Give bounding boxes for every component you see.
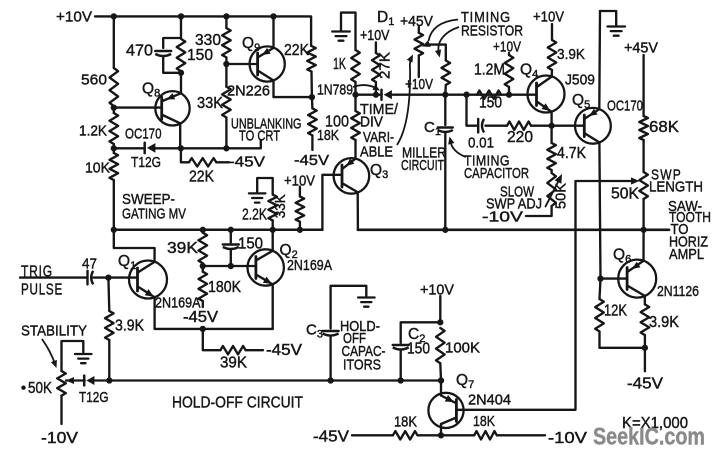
transistor Q2 2N169A: [248, 242, 333, 286]
node -45V (180K): [183, 309, 219, 326]
wire top +10V rail: [95, 16, 311, 46]
node junction 22K/18K: [309, 94, 315, 100]
svg-text:150: 150: [479, 95, 502, 112]
svg-text:OC170: OC170: [125, 126, 162, 143]
resistor 39K (Q2 base): [167, 230, 207, 266]
wire 470||150 top bracket: [163, 16, 181, 48]
svg-text:+10V: +10V: [56, 9, 92, 26]
leader to 1N789: [353, 85, 380, 91]
junction 39K top: [200, 227, 206, 233]
junction on +10V rail at 330: [223, 13, 229, 19]
ground (2.2K top): [249, 178, 273, 203]
label UNBLANKING TO CRT: [231, 117, 302, 145]
resistor 18K (left): [393, 414, 418, 440]
svg-text:-45V: -45V: [313, 429, 350, 446]
junction 12K/3.9K join: [642, 345, 648, 351]
svg-text:CAPACITOR: CAPACITOR: [464, 165, 529, 182]
resistor 33K (Q9 base): [197, 64, 231, 148]
svg-text:33K: 33K: [197, 95, 224, 112]
svg-text:1N789: 1N789: [317, 83, 353, 99]
junction on +10V rail at 150: [178, 13, 184, 19]
node junction Q8 base: [111, 104, 117, 110]
resistor 100K: [436, 328, 480, 381]
resistor 12K: [595, 279, 627, 348]
label STABILITY: [21, 323, 87, 340]
capacitor C2: [393, 326, 431, 381]
junction Q6 base/12K: [597, 275, 603, 281]
node +45V (timing): [400, 13, 433, 30]
svg-text:+45V: +45V: [624, 40, 658, 57]
junction C1 bottom: [442, 227, 448, 233]
leader TIMING RESISTOR to pot: [429, 20, 459, 42]
svg-text:22K: 22K: [284, 42, 310, 59]
wire Q2 collector lead: [272, 230, 274, 251]
wire timing bus y=94.7: [356, 94, 537, 96]
wiper wire stability: [66, 377, 85, 384]
resistor 68K: [639, 55, 679, 140]
svg-text:560: 560: [81, 72, 107, 89]
wire Q6 collector lead: [642, 230, 644, 261]
junction 150cap bottom: [228, 263, 234, 269]
wire Q8 base: [114, 106, 162, 108]
resistor 560: [81, 68, 118, 106]
wire Q2 base bus: [203, 265, 256, 267]
node -10V (stability): [41, 430, 79, 447]
svg-text:100: 100: [325, 114, 349, 131]
svg-text:DIV: DIV: [360, 115, 383, 131]
junction C3/hold-off rail: [327, 377, 333, 383]
wire Q5 collector lead: [598, 11, 601, 109]
wire Q8 emitter lead: [180, 73, 182, 94]
svg-text:T12G: T12G: [131, 154, 161, 171]
junction 33K(+10V) bottom: [297, 227, 303, 233]
junction Q7 collector/rail: [438, 432, 444, 438]
wire 470 bottom stem: [163, 58, 181, 73]
svg-text:470: 470: [126, 43, 153, 60]
resistor 2.2K: [242, 195, 277, 230]
junction timing-res bottom / C1: [442, 92, 448, 98]
label TIME/DIV VARIABLE: [360, 102, 399, 161]
capacitor 47: [82, 256, 97, 285]
ground (stability): [62, 341, 92, 371]
capacitor C1 (timing): [424, 95, 453, 230]
svg-text:50K: 50K: [553, 183, 570, 209]
svg-text:2.2K: 2.2K: [242, 206, 268, 223]
junction Q8 collector/22K: [178, 145, 184, 151]
label SWEEP-GATING MV: [122, 191, 186, 223]
capacitor C3: [306, 322, 339, 381]
resistor 1K: [333, 50, 360, 95]
resistor 39K (emitter to -45V): [203, 329, 263, 371]
svg-text:27K: 27K: [377, 52, 394, 79]
node +10V (27K top): [360, 28, 390, 44]
transistor Q8 OC170: [125, 81, 190, 143]
svg-text:CIRCUIT: CIRCUIT: [401, 157, 444, 174]
resistor 18K (right): [473, 413, 497, 440]
transistor Q6 2N1126: [613, 247, 699, 300]
svg-text:47: 47: [82, 256, 97, 273]
wire Q7 base long wire: [456, 409, 575, 411]
resistor 22K (Q9 collector): [284, 42, 316, 97]
leader TIMING CAPACITOR to C1: [448, 137, 466, 158]
wire 0.01 branch: [467, 95, 552, 126]
node junction Q8 emitter net: [178, 70, 184, 76]
node +10V (1.2M): [493, 40, 521, 56]
svg-text:GATING MV: GATING MV: [122, 206, 186, 223]
wire +10V stem: [439, 296, 441, 322]
resistor 10K: [85, 144, 118, 230]
svg-text:68K: 68K: [649, 119, 680, 136]
wire Q6 base: [601, 277, 628, 279]
label SWP LENGTH: [649, 167, 703, 196]
wire Q5 emitter long lead: [599, 142, 600, 278]
wire Q6 emitter join: [600, 348, 645, 372]
transistor Q7 2N404: [428, 372, 511, 428]
node -10V (bottom): [548, 430, 588, 447]
wire Q4 emitter lead: [550, 112, 552, 126]
wire Q5 base: [552, 125, 585, 127]
wire Q3 base: [322, 175, 342, 230]
wire Q1/Q2 emitter rail: [155, 328, 273, 330]
svg-text:+10V: +10V: [405, 77, 433, 93]
resistor 220: [507, 122, 533, 147]
potentiometer 50K slow swp adj: [526, 173, 570, 216]
svg-text:-45V: -45V: [183, 309, 219, 326]
svg-text:330: 330: [195, 32, 221, 49]
svg-text:-10V: -10V: [548, 430, 588, 447]
resistor 150 (Q8 emitter): [177, 39, 214, 71]
wire left vertical (560/1.2K/10K chain): [113, 16, 115, 68]
svg-text:2N1126: 2N1126: [657, 283, 699, 300]
wire Q2 emitter lead: [272, 284, 274, 329]
svg-text:STABILITY: STABILITY: [21, 323, 87, 340]
svg-text:2N226: 2N226: [227, 83, 270, 100]
potentiometer 50K stability: [21, 371, 66, 424]
leader VARIABLE to timing pot: [397, 55, 413, 146]
wire Q9 collector lead: [274, 81, 312, 98]
svg-text:+10V: +10V: [533, 9, 564, 26]
wire sawtooth rail: [358, 228, 669, 231]
wire bottom rail mid: [418, 434, 475, 436]
junction C2/hold-off rail: [398, 377, 404, 383]
wire trig to Q1: [94, 276, 138, 278]
svg-text:18K: 18K: [394, 414, 417, 431]
transistor Q4 J509: [520, 62, 595, 113]
svg-text:RESISTOR: RESISTOR: [461, 23, 523, 40]
node -10V (slow swp): [482, 209, 523, 226]
svg-text:ABLE: ABLE: [360, 145, 393, 161]
node -45V (bottom): [313, 429, 350, 446]
node +10V (top left supply): [56, 9, 92, 26]
wire Q9 base: [226, 63, 257, 65]
svg-text:18K: 18K: [473, 413, 495, 430]
svg-text:+10V: +10V: [360, 28, 390, 44]
node +10V (Q4 collector): [533, 9, 564, 26]
wire trig input: [20, 276, 87, 278]
junction 100K/C2: [437, 319, 443, 325]
wire hold-off rail: [93, 379, 442, 381]
node junction T12G/10K: [111, 145, 117, 151]
resistor 150 (Q4 base): [477, 91, 502, 112]
svg-text:1.2M: 1.2M: [474, 62, 505, 79]
ground (1K top): [332, 13, 355, 50]
capacitor 470: [126, 43, 171, 60]
svg-text:50K: 50K: [28, 380, 53, 397]
svg-text:-45V: -45V: [294, 152, 329, 169]
svg-text:220: 220: [507, 129, 533, 146]
svg-text:ITORS: ITORS: [343, 357, 381, 373]
svg-text:3.9K: 3.9K: [557, 46, 585, 63]
resistor 330: [195, 16, 231, 64]
junction 1K/100: [352, 92, 358, 98]
resistor 3.9K (Q4): [548, 24, 585, 70]
svg-text:AMPL: AMPL: [669, 247, 704, 263]
svg-text:+10V: +10V: [493, 40, 521, 56]
svg-text:100K: 100K: [445, 339, 480, 356]
resistor 100: [325, 95, 360, 159]
watermark SeekIC.com: [593, 424, 705, 451]
junction 50K length bottom / Q6 collector: [640, 227, 646, 233]
svg-text:12K: 12K: [604, 303, 628, 320]
label TIMING CAPACITOR: [464, 152, 529, 182]
capacitor 150 (coupling): [223, 230, 264, 266]
svg-text:T12G: T12G: [79, 389, 109, 406]
junction 100K bottom / Q7: [438, 377, 444, 383]
svg-text:1.2K: 1.2K: [79, 123, 107, 140]
svg-text:-45V: -45V: [229, 154, 265, 171]
potentiometer 50K swp length: [611, 140, 648, 230]
node +45V (68K): [624, 40, 658, 57]
wire Q1 emitter lead: [153, 297, 155, 329]
transistor Q1 2N169A: [118, 253, 201, 311]
label HOLD-OFF CAPACITORS: [340, 319, 386, 373]
potentiometer timing resistor: [405, 27, 433, 93]
junction Q1 base/3.9K: [105, 274, 111, 280]
transistor Q5 OC170: [572, 92, 643, 144]
junction 33K bottom: [223, 145, 229, 151]
junction on +10V rail at 560: [111, 13, 117, 19]
node junction Q9 base: [223, 61, 229, 67]
resistor 180K: [199, 266, 242, 307]
node +10V (33K): [284, 174, 315, 190]
label K=X1,000: [622, 415, 688, 432]
node -45V (below 18K): [294, 152, 329, 169]
svg-text:33K: 33K: [272, 194, 289, 218]
svg-text:150: 150: [407, 341, 430, 358]
junction 3.9K bottom / hold-off: [106, 377, 112, 383]
svg-text:-45V: -45V: [627, 376, 664, 393]
svg-text:J509: J509: [565, 72, 595, 89]
wire bottom rail left: [352, 434, 393, 436]
junction 150cap top: [228, 227, 234, 233]
svg-text:0.01: 0.01: [468, 135, 494, 152]
junction 39K/180K: [200, 263, 206, 269]
node -45V (22K): [229, 154, 265, 171]
ground (top right): [600, 11, 625, 36]
label TIMING RESISTOR: [461, 9, 523, 40]
label SLOW SWP ADJ: [486, 184, 542, 213]
leader TIMING RESISTOR to fixed res: [435, 27, 459, 58]
diode T12G (sweep MV): [131, 143, 161, 171]
svg-text:-10V: -10V: [41, 430, 79, 447]
node +10V (100K): [420, 281, 454, 298]
svg-text:4.7K: 4.7K: [557, 145, 587, 162]
diode T12G (hold-off): [79, 376, 109, 406]
node -45V (emitter 39K): [266, 342, 303, 359]
junction MV rail left end: [111, 227, 117, 233]
svg-text:2N169A: 2N169A: [287, 258, 332, 274]
label TRIG PULSE: [21, 264, 63, 299]
svg-text:3.9K: 3.9K: [115, 318, 145, 335]
wire Q8 collector lead: [179, 123, 181, 148]
label MILLER CIRCUIT: [401, 145, 446, 174]
svg-text:HOLD-OFF CIRCUIT: HOLD-OFF CIRCUIT: [172, 395, 303, 412]
wire collector bus y=148: [114, 140, 261, 148]
resistor 4.7K: [547, 126, 586, 173]
resistor 3.9K (Q1 base): [105, 278, 145, 381]
wire Q7 collector lead: [440, 424, 442, 435]
diode 1N789: [317, 83, 392, 100]
wire Q7 emitter lead: [440, 381, 442, 396]
resistor 33K (+10V): [272, 187, 304, 230]
svg-text:39K: 39K: [167, 240, 199, 257]
svg-text:10K: 10K: [85, 160, 110, 177]
resistor 18K (unblanking): [308, 97, 339, 150]
junction 27K bottom: [373, 92, 379, 98]
capacitor 0.01: [468, 119, 494, 152]
resistor timing (fixed): [442, 61, 451, 95]
resistor 3.9K (Q6): [641, 296, 680, 348]
svg-text:PULSE: PULSE: [21, 282, 63, 299]
wire MV rail y=229.8: [114, 229, 323, 232]
label D1: [377, 9, 394, 28]
wiper wire swp length: [576, 177, 640, 409]
resistor 27K: [372, 42, 394, 94]
svg-text:150: 150: [187, 47, 213, 64]
junction Q2 collector/2.2K: [270, 227, 276, 233]
svg-text:-10V: -10V: [482, 209, 523, 226]
leader STABILITY to pot: [42, 339, 57, 368]
svg-text:SeekIC.com: SeekIC.com: [593, 424, 705, 451]
junction 0.01 branch: [463, 92, 469, 98]
svg-text:3.9K: 3.9K: [649, 314, 680, 331]
svg-text:22K: 22K: [189, 169, 215, 186]
wire Q9 emitter lead: [272, 16, 274, 48]
svg-text:+10V: +10V: [420, 281, 454, 298]
node -45V (Q6): [627, 376, 664, 393]
junction 1.2M bottom: [506, 92, 512, 98]
resistor 22K (to -45V): [181, 148, 229, 185]
resistor 1.2M: [474, 53, 513, 95]
svg-text:+45V: +45V: [400, 13, 433, 30]
svg-text:TO CRT: TO CRT: [239, 129, 280, 145]
pot wiper / tap wire: [422, 40, 446, 60]
svg-text:39K: 39K: [220, 354, 248, 371]
svg-text:LENGTH: LENGTH: [649, 178, 703, 195]
svg-text:50K: 50K: [611, 185, 640, 202]
ground (C3): [331, 286, 375, 329]
transistor Q9 2N226: [227, 35, 285, 100]
transistor Q3: [334, 158, 389, 194]
svg-text:-45V: -45V: [266, 342, 303, 359]
wire Q4 collector lead: [551, 70, 554, 77]
wire C2 arm: [401, 322, 441, 343]
svg-text:2N404: 2N404: [468, 392, 511, 409]
wire Q3 collector lead: [357, 192, 360, 230]
label HOLD-OFF CIRCUIT: [172, 395, 303, 412]
svg-text:180K: 180K: [208, 279, 242, 296]
svg-text:VARI-: VARI-: [363, 130, 394, 146]
svg-text:1K: 1K: [333, 56, 346, 73]
resistor 1.2K: [79, 106, 118, 144]
svg-text:OC170: OC170: [607, 98, 643, 115]
junction Q4 emitter: [548, 123, 554, 129]
junction emitter rail/39K: [200, 326, 206, 332]
wire bottom rail right: [497, 434, 545, 436]
junction on +10V rail at Q9 emitter: [270, 13, 276, 19]
wire Q1 collector lead: [114, 230, 155, 262]
label SAW-TOOTH TO HORIZ AMPL: [668, 199, 711, 263]
